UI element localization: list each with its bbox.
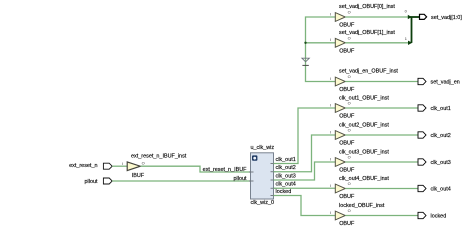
pin stub clk_out2 bbox=[271, 171, 276, 173]
wire locked bbox=[274, 189, 336, 216]
output port set_vadj[1:0] bbox=[420, 14, 463, 21]
svg-text:ext_reset_n: ext_reset_n bbox=[69, 163, 97, 169]
svg-text:clk_out2_OBUF_inst: clk_out2_OBUF_inst bbox=[339, 122, 389, 128]
bus tap arrow bit 1 bbox=[405, 36, 413, 45]
svg-text:clk_out3: clk_out3 bbox=[431, 160, 451, 166]
svg-text:clk_out4: clk_out4 bbox=[431, 187, 451, 193]
svg-text:clk_out3_OBUF_inst: clk_out3_OBUF_inst bbox=[339, 149, 389, 155]
input port pllout bbox=[85, 178, 113, 185]
ground bbox=[302, 58, 309, 65]
output port clk_out3 bbox=[418, 159, 451, 166]
buffer ext_reset_n_IBUF_inst bbox=[122, 153, 186, 179]
svg-text:clk_wiz_0: clk_wiz_0 bbox=[251, 200, 275, 206]
svg-text:O: O bbox=[142, 161, 145, 166]
wire bbox=[345, 161, 417, 163]
wire ground net bbox=[306, 17, 336, 82]
input port ext_reset_n bbox=[69, 163, 112, 169]
svg-text:IBUF: IBUF bbox=[132, 173, 145, 179]
pin stub locked bbox=[271, 195, 276, 197]
svg-text:locked: locked bbox=[276, 189, 292, 195]
svg-text:I: I bbox=[330, 102, 331, 107]
svg-text:ext_reset_n_IBUF_inst: ext_reset_n_IBUF_inst bbox=[131, 153, 187, 159]
wire ext_reset_n_IBUF bbox=[141, 166, 251, 173]
svg-text:O: O bbox=[348, 181, 351, 186]
bus tap arrow bit 0 bbox=[405, 9, 412, 20]
buffer clk_out3_OBUF_inst bbox=[330, 149, 389, 173]
output port clk_out1 bbox=[418, 105, 451, 112]
svg-text:0: 0 bbox=[405, 9, 408, 14]
svg-text:clk_out1: clk_out1 bbox=[431, 106, 451, 112]
svg-text:OBUF: OBUF bbox=[339, 23, 355, 29]
svg-text:pllout: pllout bbox=[85, 179, 98, 185]
bus set_vadj_OBUF[1:0] bbox=[409, 17, 419, 43]
svg-text:I: I bbox=[330, 129, 331, 134]
svg-text:I: I bbox=[330, 210, 331, 215]
pin stub clk_out3 bbox=[271, 179, 276, 181]
buffer clk_out2_OBUF_inst bbox=[330, 122, 389, 146]
svg-text:locked: locked bbox=[431, 214, 447, 220]
wire pllout bbox=[112, 176, 251, 182]
pin stub clk_out4 bbox=[271, 187, 276, 189]
svg-text:I: I bbox=[122, 161, 123, 166]
buffer set_vadj_OBUF[0]_inst bbox=[330, 4, 395, 29]
svg-text:O: O bbox=[348, 35, 351, 40]
svg-text:OBUF: OBUF bbox=[339, 114, 355, 120]
svg-text:clk_out2: clk_out2 bbox=[276, 165, 296, 171]
svg-text:clk_out2: clk_out2 bbox=[431, 133, 451, 139]
svg-text:u_clk_wiz: u_clk_wiz bbox=[251, 145, 275, 151]
buffer clk_out1_OBUF_inst bbox=[330, 95, 389, 119]
svg-text:O: O bbox=[348, 10, 351, 15]
buffer clk_out4_OBUF_inst bbox=[330, 176, 389, 200]
svg-text:1: 1 bbox=[405, 36, 407, 41]
wire bbox=[345, 134, 417, 136]
wire clk_out4 bbox=[274, 182, 336, 189]
module u_clk_wiz (clk_wiz_0) bbox=[251, 145, 275, 206]
svg-text:I: I bbox=[330, 183, 331, 188]
output port clk_out2 bbox=[418, 132, 451, 139]
svg-text:I: I bbox=[330, 76, 331, 81]
svg-text:OBUF: OBUF bbox=[339, 87, 355, 93]
svg-text:locked_OBUF_inst: locked_OBUF_inst bbox=[339, 203, 385, 209]
svg-text:OBUF: OBUF bbox=[339, 168, 355, 174]
junction bbox=[304, 42, 306, 44]
buffer locked_OBUF_inst bbox=[330, 203, 385, 227]
svg-text:clk_out1: clk_out1 bbox=[276, 157, 296, 163]
svg-text:set_vadj[1:0]: set_vadj[1:0] bbox=[431, 15, 462, 21]
output port set_vadj_en bbox=[418, 78, 460, 85]
wire bbox=[345, 16, 409, 18]
output port locked bbox=[418, 212, 446, 219]
svg-text:I: I bbox=[330, 156, 331, 161]
output port clk_out4 bbox=[418, 185, 451, 192]
buffer set_vadj_en_OBUF_inst bbox=[330, 69, 398, 93]
svg-text:clk_out3: clk_out3 bbox=[276, 173, 296, 179]
svg-text:I: I bbox=[330, 37, 331, 42]
svg-text:OBUF: OBUF bbox=[339, 141, 355, 147]
wire bbox=[345, 188, 417, 190]
wire bbox=[345, 42, 408, 44]
svg-text:OBUF: OBUF bbox=[339, 221, 355, 227]
svg-text:set_vadj_en: set_vadj_en bbox=[431, 80, 460, 86]
svg-text:clk_out4: clk_out4 bbox=[276, 182, 296, 188]
buffer set_vadj_OBUF[1]_inst bbox=[330, 30, 395, 54]
wire clk_out3 bbox=[274, 162, 336, 180]
svg-text:clk_out4_OBUF_inst: clk_out4_OBUF_inst bbox=[339, 176, 389, 182]
wire bbox=[345, 107, 417, 109]
svg-text:OBUF: OBUF bbox=[339, 48, 355, 54]
svg-text:O: O bbox=[348, 128, 351, 133]
svg-text:O: O bbox=[348, 74, 351, 79]
wire ext_reset_n bbox=[112, 165, 127, 167]
wire bbox=[345, 215, 417, 217]
svg-text:I: I bbox=[330, 11, 331, 16]
pin stub clk_out1 bbox=[271, 163, 276, 165]
svg-text:O: O bbox=[348, 101, 351, 106]
svg-text:O: O bbox=[348, 208, 351, 213]
svg-text:clk_out1_OBUF_inst: clk_out1_OBUF_inst bbox=[339, 95, 389, 101]
svg-text:O: O bbox=[348, 155, 351, 160]
svg-text:pllout: pllout bbox=[234, 176, 247, 182]
wire clk_out2 bbox=[274, 135, 336, 172]
wire clk_out1 bbox=[274, 108, 336, 164]
module icon bbox=[252, 155, 257, 160]
svg-text:OBUF: OBUF bbox=[339, 194, 355, 200]
pin stub ext_reset_n_IBUF bbox=[249, 171, 254, 173]
svg-text:ext_reset_n_IBUF: ext_reset_n_IBUF bbox=[203, 167, 248, 173]
wire bbox=[345, 81, 417, 83]
pin stub pllout bbox=[249, 180, 254, 182]
